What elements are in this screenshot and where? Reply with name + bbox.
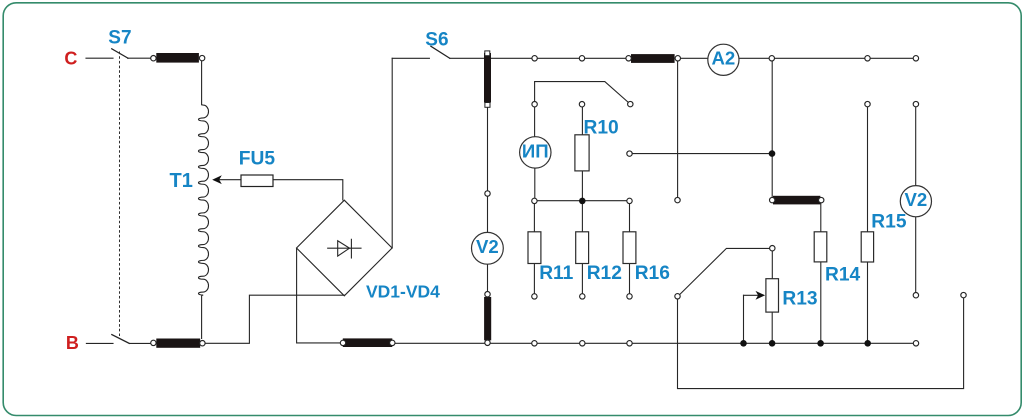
svg-text:R13: R13	[782, 288, 817, 309]
svg-text:R12: R12	[587, 263, 622, 284]
svg-text:R10: R10	[584, 118, 619, 139]
svg-text:V2: V2	[905, 189, 928, 210]
svg-text:S6: S6	[425, 29, 448, 50]
svg-text:S7: S7	[108, 28, 131, 49]
svg-text:FU5: FU5	[239, 149, 276, 170]
svg-text:V2: V2	[476, 236, 499, 257]
svg-text:A2: A2	[712, 48, 736, 69]
svg-text:C: C	[64, 49, 77, 69]
svg-text:ИП: ИП	[522, 140, 549, 161]
svg-text:T1: T1	[170, 170, 193, 192]
svg-text:R14: R14	[825, 265, 861, 286]
svg-text:R16: R16	[635, 263, 670, 284]
svg-text:B: B	[66, 333, 79, 353]
svg-text:VD1-VD4: VD1-VD4	[366, 281, 440, 301]
svg-text:R15: R15	[871, 211, 907, 232]
svg-text:R11: R11	[539, 263, 573, 284]
